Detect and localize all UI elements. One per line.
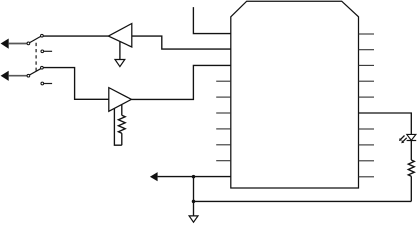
- IC pin stub R4: [359, 80, 375, 82]
- resistor R2 bottom lead to rail: [410, 176, 412, 201]
- IC pin stub L9: [216, 160, 231, 162]
- LED D1 emission arrow 1: [401, 136, 405, 140]
- IC pin stub L6: [216, 112, 231, 114]
- IC pin stub R2: [359, 49, 375, 51]
- IC pin stub L8: [216, 144, 231, 146]
- switch S1a throw 1 contact: [41, 34, 44, 37]
- stub from S1a throw 2: [44, 50, 52, 52]
- bottom ground rail: [194, 200, 412, 202]
- gang dashed link S1: [35, 43, 37, 72]
- wire J3 to IC pin L10: [158, 176, 231, 178]
- junction node at ground wire: [192, 175, 196, 179]
- input jack J2 (filled left arrow): [1, 71, 9, 81]
- ground open-arrow (bottom): [189, 216, 198, 222]
- resistor R2 zigzag: [408, 160, 414, 176]
- LED D1 cathode bar: [407, 140, 417, 142]
- buffer U2 (right-pointing triangle): [109, 88, 132, 112]
- input jack J1 (filled left arrow): [1, 39, 9, 49]
- resistor R1 zigzag: [118, 115, 125, 133]
- wire J1 to switch pole: [9, 43, 27, 45]
- IC pin stub R5: [359, 96, 375, 98]
- IC pin stub R3: [359, 64, 375, 66]
- switch S1b throw 1 contact: [41, 66, 44, 69]
- IC pin stub R1: [359, 33, 375, 35]
- LED D1 emission arrow 2: [403, 138, 407, 142]
- wire U1 input from IC (pin row 2): [132, 36, 231, 49]
- switch S1b throw 2 contact: [41, 82, 44, 85]
- LED D1 lead down: [410, 141, 412, 161]
- IC U3 body (chamfered rectangle): [231, 1, 359, 188]
- ground open-arrow below U1: [115, 60, 125, 67]
- stub from S1b throw 2: [44, 83, 52, 85]
- switch S1a pole contact: [27, 42, 30, 45]
- wire S1b throw1 to buffer U2 input: [43, 68, 108, 100]
- switch S1b pole contact: [27, 74, 30, 77]
- IC pin stub L7: [216, 128, 231, 130]
- IC pin stub R8: [359, 144, 375, 146]
- resistor R1 top lead: [121, 104, 123, 115]
- ground jack J3 (filled left arrow, bottom): [150, 172, 158, 181]
- ground stub below U1: [119, 42, 121, 60]
- wire IC pin R6 to LED D1: [359, 113, 412, 134]
- switch S1a throw 2 contact: [41, 50, 44, 53]
- wire S1a throw1 to buffer U1 output: [43, 35, 108, 37]
- wire left leg of U2 load loop: [114, 108, 121, 145]
- buffer U1 (left-pointing triangle): [108, 24, 131, 48]
- LED D1 triangle: [407, 134, 416, 140]
- wire A into IC pin L1 (top stub): [193, 7, 230, 33]
- resistor R1 bottom lead: [121, 133, 123, 145]
- junction node at bottom rail: [192, 200, 196, 204]
- switch S1a lever: [30, 36, 41, 42]
- IC pin stub L4: [216, 80, 231, 82]
- IC pin stub R10: [359, 176, 375, 178]
- switch S1b lever: [30, 69, 41, 75]
- IC pin stub R7: [359, 128, 375, 130]
- IC pin stub L5: [216, 96, 231, 98]
- IC pin stub R9: [359, 160, 375, 162]
- wire U2 output to IC (pin row 3): [131, 65, 230, 99]
- wire J2 to switch pole: [9, 75, 27, 77]
- wire junction down to ground arrow: [193, 177, 195, 216]
